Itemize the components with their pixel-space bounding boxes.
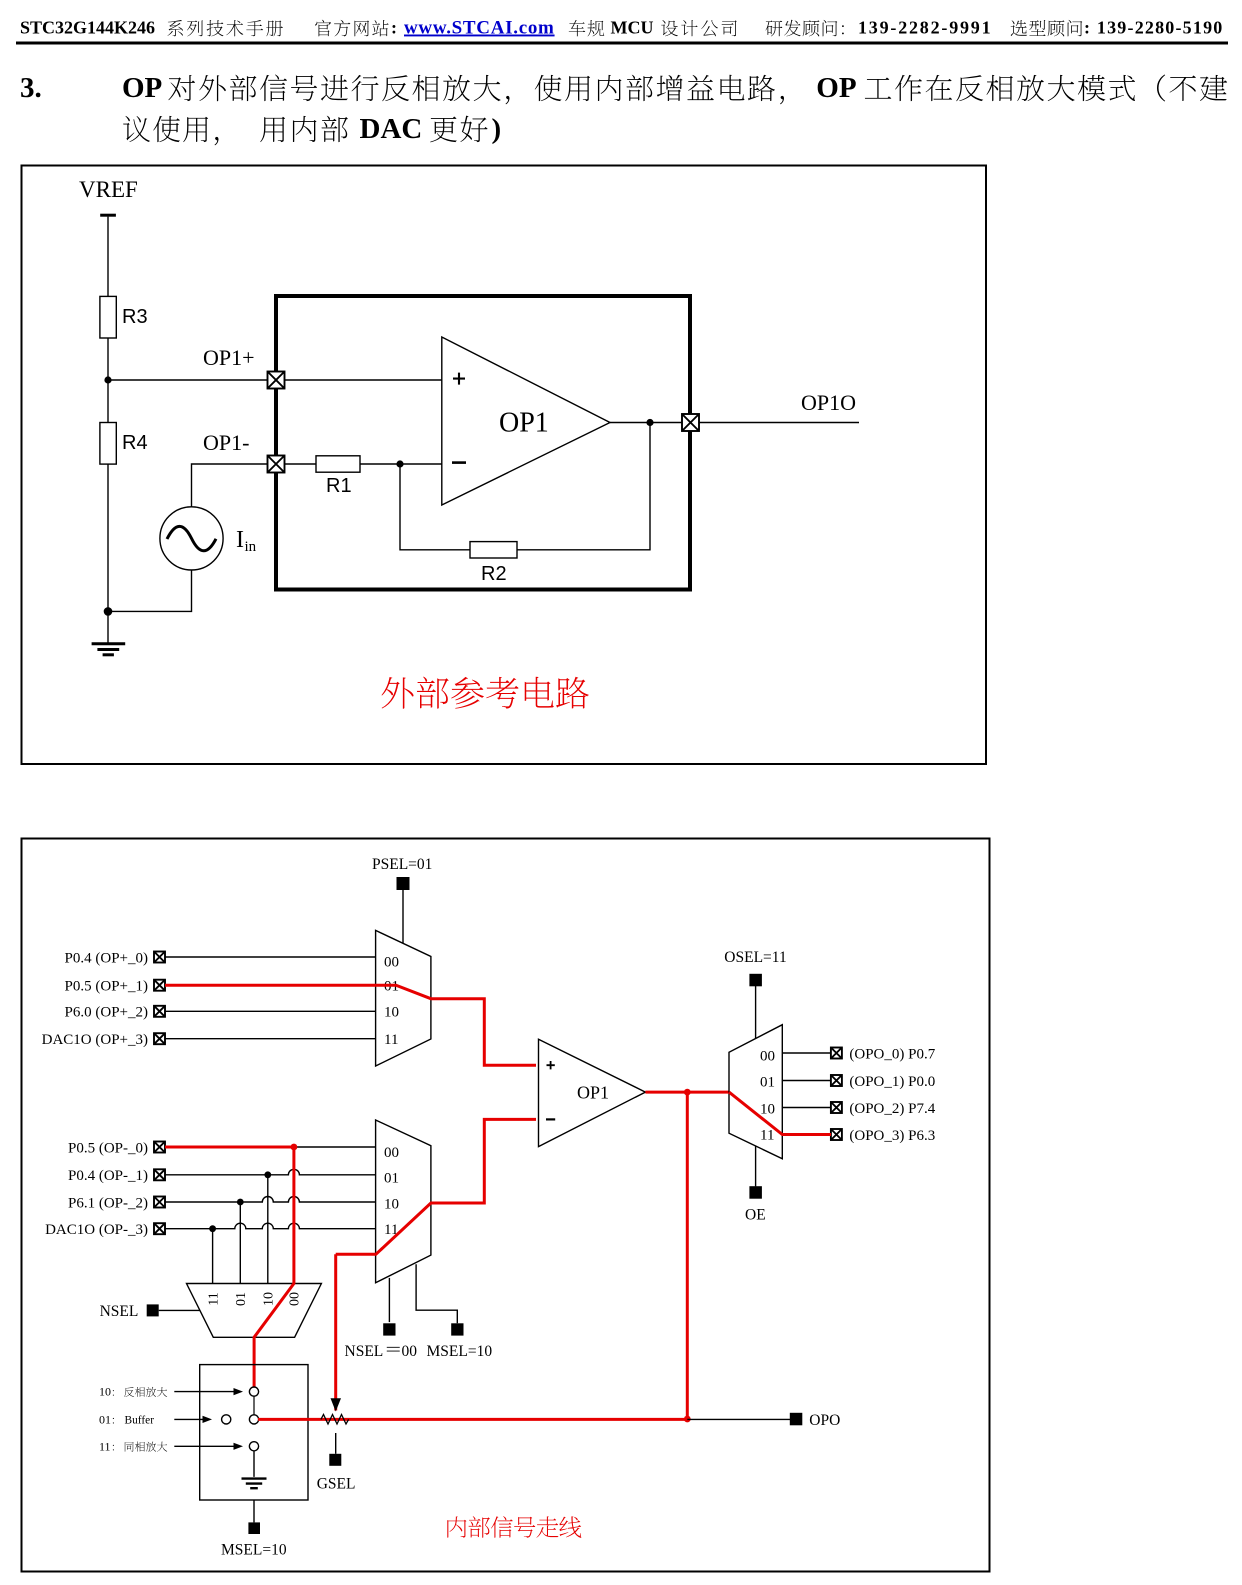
switch throw contact 10 (249, 1387, 258, 1396)
svg-text:00: 00 (288, 1292, 303, 1306)
junction dot DAC1O (OP-_3) (209, 1225, 216, 1232)
pad OP1- (268, 456, 285, 473)
wire P6.0 (OP+_2) to P-mux (165, 1010, 376, 1012)
svg-text:OE: OE (745, 1207, 766, 1224)
red route: P0.5 (OP-_0) to switch via NSEL decoder (165, 1147, 294, 1387)
svg-text:11: 11 (99, 1439, 111, 1453)
wire O-mux to (OPO_1) P0.0 (782, 1080, 831, 1082)
inverting input junction dot (396, 460, 403, 467)
feedback wire R2 to output node (517, 423, 650, 550)
wire P0.4 (OP-_1) down to NSEL decoder (267, 1175, 269, 1284)
svg-text:OP1O: OP1O (801, 390, 856, 415)
wire PSEL to P-mux (402, 890, 404, 943)
wire P0.5 (OP-_0) to N-mux (294, 1146, 376, 1148)
svg-text:in: in (245, 539, 257, 555)
svg-text:00: 00 (402, 1343, 418, 1360)
header: selection phone (1011, 20, 1083, 36)
op-amp OP1 (figure 2) (539, 1039, 646, 1146)
N-mux select stub to MSEL=10 square (416, 1264, 457, 1323)
resistor R2 (470, 542, 517, 558)
svg-text:P0.5 (OP+_1): P0.5 (OP+_1) (65, 979, 148, 995)
NSEL decoder funnel (187, 1284, 322, 1338)
P-mux trapezoid (376, 930, 431, 1066)
header: company (569, 20, 604, 36)
svg-text:01: 01 (760, 1075, 775, 1091)
red junction dot OPO rail (684, 1416, 691, 1423)
svg-text:GSEL: GSEL (317, 1476, 356, 1493)
wire OPO rail to OPO square (687, 1418, 790, 1420)
pad P0.4 (OP-_1) (154, 1169, 165, 1180)
svg-text:P0.4 (OP+_0): P0.4 (OP+_0) (65, 950, 148, 966)
svg-text:OSEL=11: OSEL=11 (724, 949, 786, 966)
svg-text:P0.4 (OP-_1): P0.4 (OP-_1) (68, 1168, 148, 1184)
wire P0.4 (OP+_0) to P-mux (165, 956, 376, 958)
svg-text:(OPO_3) P6.3: (OPO_3) P6.3 (849, 1128, 935, 1144)
pad P0.5 (OP-_0) (154, 1142, 165, 1153)
svg-text:R4: R4 (122, 432, 148, 454)
GSEL wiper arrowhead (331, 1398, 342, 1411)
pad (OPO_1) P0.0 (831, 1075, 842, 1086)
ground junction dot (104, 607, 113, 616)
arrow to throw 01 (174, 1418, 204, 1420)
svg-text:(OPO_2) P7.4: (OPO_2) P7.4 (849, 1101, 935, 1117)
wire OP1+ pad to op-amp + input (285, 379, 442, 381)
svg-text:10: 10 (99, 1385, 111, 1399)
pad P0.5 (OP+_1) (154, 980, 165, 991)
NSEL square (147, 1304, 159, 1316)
current source Iin (160, 507, 223, 570)
wire node A to OP1+ pad (108, 379, 268, 381)
svg-text:139-2282-9991: 139-2282-9991 (858, 18, 992, 38)
wire NSEL square to funnel (159, 1309, 200, 1311)
switch pole contact (222, 1415, 231, 1424)
header: site label (315, 20, 389, 37)
O-mux trapezoid (729, 1025, 782, 1159)
svg-text:: 139-2280-5190: : 139-2280-5190 (1084, 18, 1223, 38)
svg-text:VREF: VREF (79, 177, 138, 202)
svg-text:R3: R3 (122, 306, 148, 328)
svg-text:OP: OP (122, 72, 162, 104)
pad P6.1 (OP-_2) (154, 1197, 165, 1208)
wire ground junction to ground symbol (107, 611, 109, 642)
pad DAC1O (OP-_3) (154, 1223, 165, 1234)
heading line 2 (123, 116, 218, 145)
switch throw contact 11 (249, 1442, 258, 1451)
svg-text:R2: R2 (481, 563, 507, 585)
OE square (749, 1186, 762, 1199)
svg-text:OP1+: OP1+ (203, 345, 255, 370)
svg-text:10: 10 (384, 1005, 399, 1021)
wire GSEL zigzag to GSEL square (335, 1433, 337, 1454)
ground symbol (92, 644, 126, 655)
svg-text:01: 01 (384, 1170, 399, 1186)
svg-text:10: 10 (384, 1196, 399, 1212)
figure 2 caption (red) (447, 1516, 581, 1538)
svg-text:11: 11 (384, 1032, 398, 1048)
feedback wire down from inverting node (400, 464, 470, 550)
svg-text:PSEL=01: PSEL=01 (372, 856, 432, 873)
wire op-amp output to OP1O pad (610, 422, 682, 424)
svg-text:OPO: OPO (809, 1412, 840, 1429)
resistor R4 (100, 423, 116, 465)
svg-text:00: 00 (760, 1049, 775, 1065)
resistor R3 (100, 296, 116, 338)
wire O-mux to (OPO_0) P0.7 (782, 1052, 831, 1054)
N-mux select stub to NSEL=00 square (388, 1278, 390, 1322)
svg-text:DAC1O (OP-_3): DAC1O (OP-_3) (45, 1222, 148, 1238)
switch wiper 10-01 (253, 1396, 255, 1415)
OSEL control square (749, 974, 762, 987)
svg-text:(OPO_0) P0.7: (OPO_0) P0.7 (849, 1046, 935, 1062)
red route: N-mux to GSEL arrow (334, 1254, 337, 1410)
pad P0.4 (OP+_0) (154, 952, 165, 963)
svg-text:(OPO_1) P0.0: (OPO_1) P0.0 (849, 1074, 935, 1090)
resistor R1 (316, 456, 360, 472)
svg-text:P0.5 (OP-_0): P0.5 (OP-_0) (68, 1140, 148, 1156)
pad (OPO_3) P6.3 (831, 1129, 842, 1140)
wire R4 to ground junction (107, 464, 109, 611)
output junction dot (646, 419, 653, 426)
svg-text:MCU: MCU (611, 18, 654, 38)
wire current source bottom to ground junction (108, 570, 192, 611)
node A junction dot (104, 376, 111, 383)
red route: switch output through GSEL to OPO (258, 1418, 687, 1421)
svg-text:3.: 3. (20, 72, 42, 104)
header: R&D phone (766, 20, 844, 37)
VREF terminal bar (100, 214, 116, 217)
svg-text:I: I (236, 527, 244, 553)
wire P6.1 (OP-_2) to N-mux (165, 1197, 376, 1203)
ground symbol (switch box) (242, 1477, 267, 1479)
pad OP1+ (268, 372, 285, 389)
svg-text:10: 10 (760, 1102, 775, 1118)
svg-text:Buffer: Buffer (125, 1414, 155, 1426)
svg-text:DAC1O (OP+_3): DAC1O (OP+_3) (42, 1032, 148, 1048)
svg-text:P6.1 (OP-_2): P6.1 (OP-_2) (68, 1195, 148, 1211)
svg-text::: : (391, 18, 397, 38)
wire DAC1O (OP+_3) to P-mux (165, 1038, 376, 1040)
GSEL potentiometer zigzag (321, 1415, 349, 1425)
svg-text:): ) (492, 113, 502, 145)
svg-text:OP1: OP1 (499, 408, 549, 439)
red route: op-amp output to OSEL mux and OPO rail (645, 1091, 729, 1094)
wire P6.1 (OP-_2) down to NSEL decoder (239, 1202, 241, 1284)
pad OP1O (682, 414, 699, 431)
svg-text:10: 10 (262, 1292, 277, 1306)
wire P0.4 (OP-_1) to N-mux (165, 1169, 376, 1174)
svg-text:www.STCAI.com: www.STCAI.com (404, 18, 555, 39)
wire DAC1O (OP-_3) to N-mux (165, 1223, 376, 1229)
wire R1 to op-amp - input (360, 463, 442, 465)
pad (OPO_2) P7.4 (831, 1102, 842, 1113)
MSEL mode switch box (200, 1365, 308, 1500)
svg-text:00: 00 (384, 1145, 399, 1161)
svg-text:R1: R1 (326, 475, 352, 497)
wire switch box to MSEL=10 square (253, 1500, 255, 1522)
svg-text:P6.0 (OP+_2): P6.0 (OP+_2) (65, 1005, 148, 1021)
red junction dot P0.5 (OP-_0) (291, 1144, 298, 1151)
inner gain-circuit box (276, 296, 690, 590)
svg-text:00: 00 (384, 955, 399, 971)
wire contact 11 to ground (253, 1451, 255, 1477)
wire R3 to R4 through node A (107, 338, 109, 423)
arrow to throw 11 (174, 1445, 235, 1447)
svg-text:STC32G144K246: STC32G144K246 (20, 18, 155, 38)
GSEL square (329, 1454, 341, 1466)
wire O-mux to OE square (755, 1146, 757, 1186)
svg-text:NSEL: NSEL (345, 1343, 384, 1360)
red route: gain select through N-mux to op-amp - (336, 1119, 536, 1254)
wire OSEL to O-mux (755, 986, 757, 1039)
red route: P0.5 (OP+_1) through P-mux to op-amp + (165, 985, 536, 1065)
op-amp OP1 (442, 337, 610, 505)
junction dot P0.4 (OP-_1) (264, 1171, 271, 1178)
arrow to throw 10 (174, 1391, 235, 1393)
OPO square (790, 1413, 803, 1426)
pad DAC1O (OP+_3) (154, 1033, 165, 1044)
svg-text:01: 01 (234, 1292, 249, 1306)
svg-text:11: 11 (760, 1128, 774, 1144)
svg-text:NSEL: NSEL (100, 1303, 139, 1320)
svg-text:MSEL=10: MSEL=10 (427, 1343, 493, 1360)
wire DAC1O (OP-_3) down to NSEL decoder (212, 1229, 214, 1284)
svg-text:01: 01 (99, 1412, 111, 1426)
N-mux trapezoid (376, 1120, 431, 1283)
figure 1 outer frame (22, 166, 987, 765)
svg-text:OP: OP (816, 72, 856, 104)
figure 1 caption (red) (382, 677, 589, 709)
svg-text:MSEL=10: MSEL=10 (221, 1542, 287, 1559)
switch throw contact 01 (common out) (249, 1415, 258, 1424)
pad P6.0 (OP+_2) (154, 1006, 165, 1017)
junction dot P6.1 (OP-_2) (237, 1199, 244, 1206)
wire O-mux to (OPO_2) P7.4 (782, 1107, 831, 1109)
svg-text:OP1: OP1 (577, 1082, 609, 1102)
svg-text:DAC: DAC (360, 113, 423, 145)
PSEL control square (397, 877, 410, 890)
figure 2 outer frame (22, 839, 990, 1572)
svg-text:11: 11 (206, 1292, 221, 1305)
pad (OPO_0) P0.7 (831, 1048, 842, 1059)
wire OP1O pad to OP1O label (699, 422, 859, 424)
wire OP1- pad to R1 (285, 463, 317, 465)
wire OP1- pad left to current source (192, 464, 268, 507)
red junction dot op-amp output (684, 1089, 691, 1096)
wire VREF to R3 (107, 217, 109, 297)
svg-text:OP1-: OP1- (203, 430, 249, 455)
red route: O-mux 11 to (OPO_3) P6.3 (729, 1092, 831, 1134)
header rule (16, 42, 1228, 45)
MSEL=10 square (248, 1522, 260, 1534)
